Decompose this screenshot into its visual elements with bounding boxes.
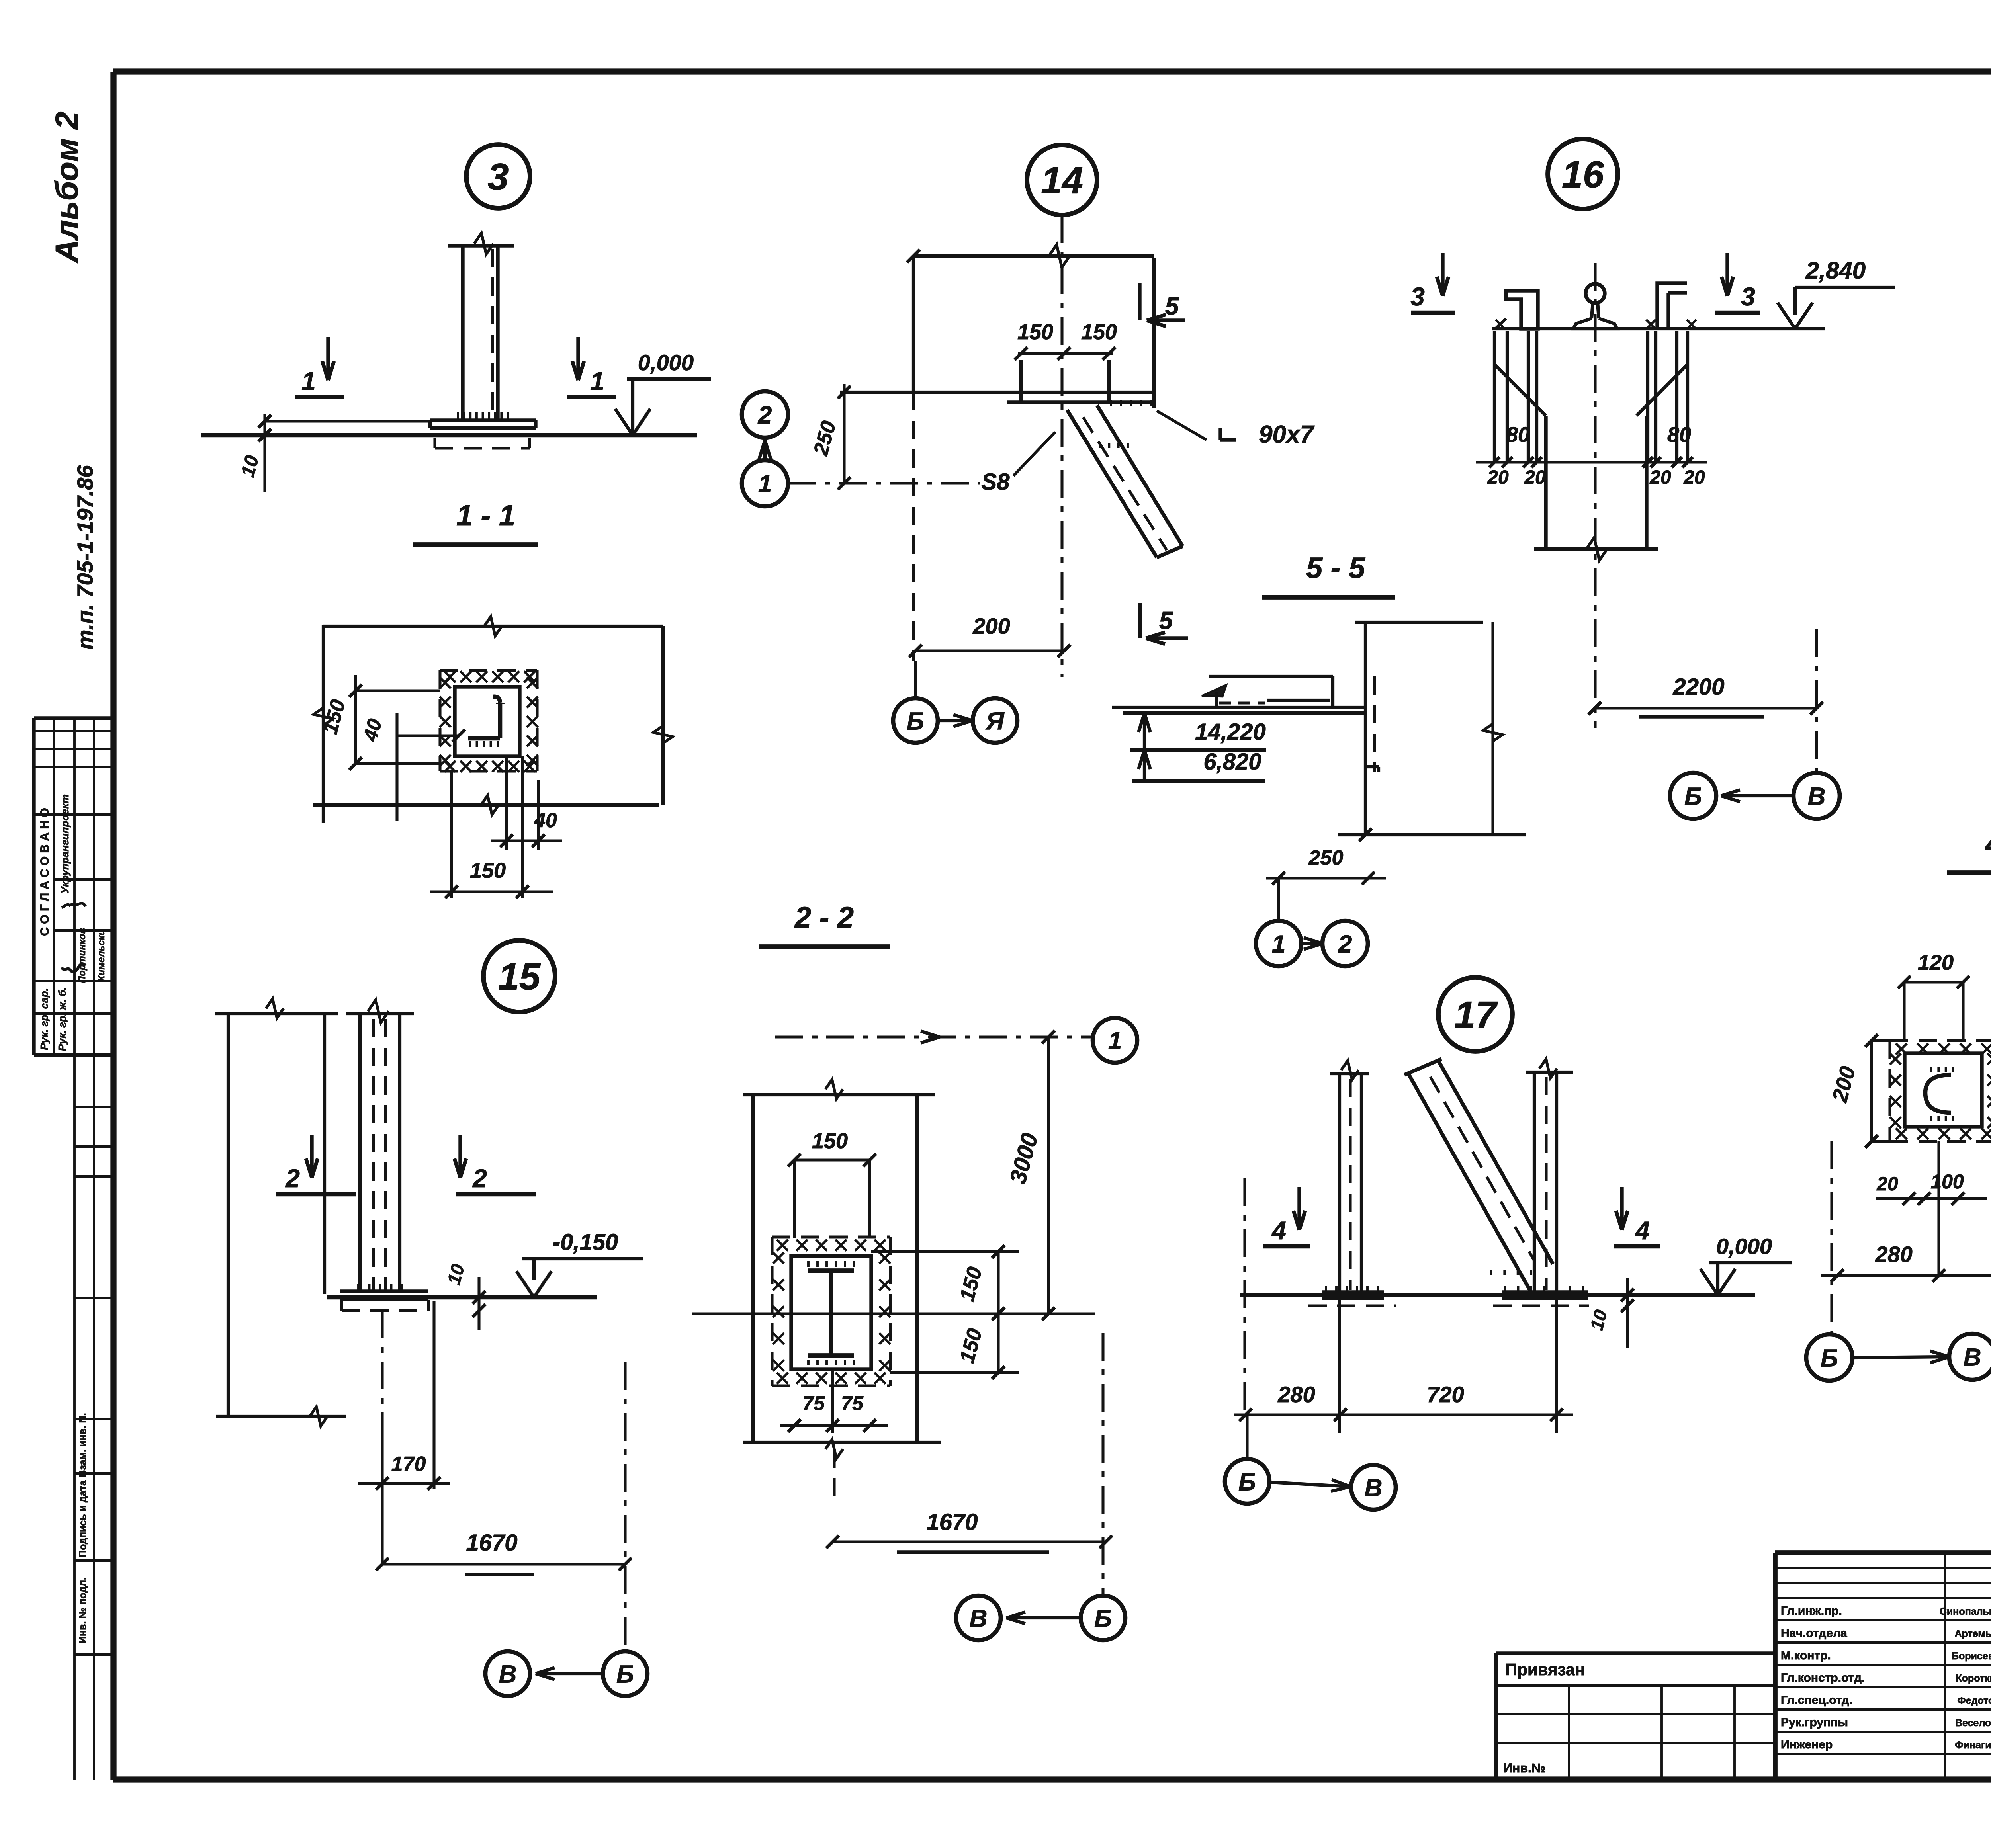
svg-text:20: 20 [1649, 467, 1671, 488]
svg-text:150: 150 [1081, 320, 1117, 344]
svg-text:2200: 2200 [1672, 674, 1724, 700]
svg-text:Борисевич: Борисевич [1952, 1651, 1991, 1662]
svg-text:5 - 5: 5 - 5 [1306, 551, 1366, 584]
svg-text:3000: 3000 [1005, 1130, 1043, 1186]
svg-text:80: 80 [1506, 423, 1530, 447]
svg-text:14,220: 14,220 [1195, 719, 1265, 745]
svg-text:С О Г Л А С О В А Н О: С О Г Л А С О В А Н О [38, 808, 51, 936]
svg-text:250: 250 [809, 418, 841, 458]
svg-text:90х7: 90х7 [1259, 421, 1314, 448]
svg-text:4: 4 [1635, 1216, 1650, 1245]
svg-text:Рук. гр. сар.: Рук. гр. сар. [38, 988, 50, 1050]
svg-text:1: 1 [301, 367, 316, 395]
svg-text:Портинков: Портинков [77, 928, 88, 983]
svg-text:М.контр.: М.контр. [1781, 1649, 1831, 1662]
svg-text:2: 2 [472, 1164, 487, 1193]
svg-text:Б: Б [1238, 1468, 1256, 1496]
svg-text:Б: Б [1684, 783, 1702, 810]
svg-text:75: 75 [802, 1392, 825, 1414]
svg-text:В: В [499, 1660, 517, 1688]
svg-text:Инв.№: Инв.№ [1503, 1761, 1546, 1775]
svg-text:0,000: 0,000 [638, 350, 694, 375]
svg-text:150: 150 [955, 1264, 986, 1304]
svg-text:Короткий: Короткий [1956, 1673, 1991, 1684]
svg-text:1670: 1670 [926, 1509, 978, 1535]
svg-text:120: 120 [1918, 951, 1954, 975]
svg-text:-0,150: -0,150 [553, 1229, 618, 1255]
svg-text:3: 3 [1410, 282, 1425, 311]
svg-text:Инженер: Инженер [1781, 1738, 1833, 1751]
svg-text:0,000: 0,000 [1716, 1234, 1772, 1259]
svg-text:16: 16 [1562, 153, 1604, 195]
svg-text:280: 280 [1277, 1382, 1315, 1407]
svg-text:Я: Я [985, 707, 1005, 735]
svg-text:200: 200 [972, 613, 1010, 639]
svg-text:20: 20 [1876, 1174, 1898, 1195]
svg-text:80: 80 [1667, 423, 1691, 447]
svg-text:5: 5 [1159, 607, 1173, 635]
svg-text:Рук.группы: Рук.группы [1781, 1716, 1848, 1729]
svg-text:20: 20 [1524, 467, 1546, 488]
svg-text:1 - 1: 1 - 1 [456, 499, 515, 532]
svg-text:40: 40 [359, 716, 386, 744]
svg-text:150: 150 [955, 1326, 986, 1365]
svg-text:15: 15 [498, 955, 541, 998]
svg-text:170: 170 [391, 1453, 426, 1476]
svg-text:Федотов: Федотов [1957, 1695, 1991, 1706]
svg-text:2: 2 [758, 401, 772, 429]
svg-text:10: 10 [1586, 1307, 1612, 1332]
svg-text:Альбом 2: Альбом 2 [49, 111, 84, 263]
svg-text:т.п. 705-1-197.86: т.п. 705-1-197.86 [72, 465, 98, 650]
svg-text:5: 5 [1165, 293, 1179, 320]
svg-text:20: 20 [1683, 467, 1705, 488]
svg-text:В: В [1808, 783, 1826, 810]
svg-text:3: 3 [1741, 282, 1755, 311]
svg-text:В: В [1964, 1344, 1981, 1371]
svg-text:20: 20 [1487, 467, 1509, 488]
svg-text:1670: 1670 [466, 1530, 517, 1556]
svg-text:S8: S8 [982, 469, 1010, 495]
svg-text:1: 1 [1272, 930, 1285, 958]
svg-text:Гл.инж.пр.: Гл.инж.пр. [1781, 1604, 1842, 1617]
svg-text:2: 2 [285, 1164, 300, 1193]
svg-text:Привязан: Привязан [1505, 1660, 1585, 1679]
svg-text:Взам. инв. N.: Взам. инв. N. [77, 1413, 88, 1477]
svg-text:Инв. № подл.: Инв. № подл. [77, 1577, 88, 1643]
svg-text:10: 10 [443, 1262, 469, 1287]
svg-text:Артемьев: Артемьев [1955, 1628, 1991, 1639]
svg-text:Рук. гр. ж. б.: Рук. гр. ж. б. [56, 987, 68, 1051]
svg-text:75: 75 [841, 1392, 864, 1414]
svg-text:В: В [970, 1605, 988, 1632]
svg-text:10: 10 [237, 453, 263, 479]
svg-text:200: 200 [1828, 1064, 1860, 1105]
svg-text:14: 14 [1041, 159, 1083, 201]
svg-text:40: 40 [534, 809, 557, 832]
svg-text:Б: Б [907, 707, 924, 735]
svg-text:150: 150 [1017, 320, 1053, 344]
svg-text:2,840: 2,840 [1805, 257, 1866, 284]
svg-text:Подпись и дата: Подпись и дата [77, 1480, 88, 1557]
svg-text:Кимельски: Кимельски [96, 930, 107, 982]
svg-text:Укрупрангипроект: Укрупрангипроект [59, 794, 71, 894]
svg-text:1: 1 [758, 470, 772, 498]
svg-text:Гл.констр.отд.: Гл.констр.отд. [1781, 1671, 1865, 1684]
svg-text:Финагина: Финагина [1955, 1740, 1991, 1751]
svg-text:6,820: 6,820 [1203, 749, 1261, 775]
svg-text:100: 100 [1930, 1170, 1964, 1193]
svg-text:250: 250 [1308, 846, 1344, 869]
svg-text:Синопальников: Синопальников [1940, 1606, 1991, 1617]
svg-text:720: 720 [1427, 1382, 1464, 1407]
svg-text:Веселова: Веселова [1955, 1717, 1991, 1729]
svg-text:Гл.спец.отд.: Гл.спец.отд. [1781, 1694, 1852, 1707]
svg-text:В: В [1365, 1474, 1383, 1502]
svg-text:1: 1 [1108, 1027, 1122, 1055]
svg-text:150: 150 [812, 1129, 848, 1153]
svg-text:150: 150 [470, 859, 506, 883]
svg-text:Б: Б [616, 1660, 634, 1688]
svg-text:1: 1 [590, 367, 604, 395]
svg-text:Нач.отдела: Нач.отдела [1781, 1627, 1847, 1640]
svg-text:Б: Б [1094, 1605, 1112, 1632]
svg-text:17: 17 [1454, 994, 1498, 1036]
svg-text:2: 2 [1338, 930, 1352, 958]
svg-text:3: 3 [488, 156, 509, 198]
svg-text:4: 4 [1271, 1216, 1286, 1245]
svg-text:2 - 2: 2 - 2 [794, 901, 854, 934]
svg-text:Б: Б [1821, 1344, 1838, 1372]
svg-text:280: 280 [1875, 1242, 1912, 1267]
svg-text:4 - 4: 4 - 4 [1985, 827, 1991, 860]
